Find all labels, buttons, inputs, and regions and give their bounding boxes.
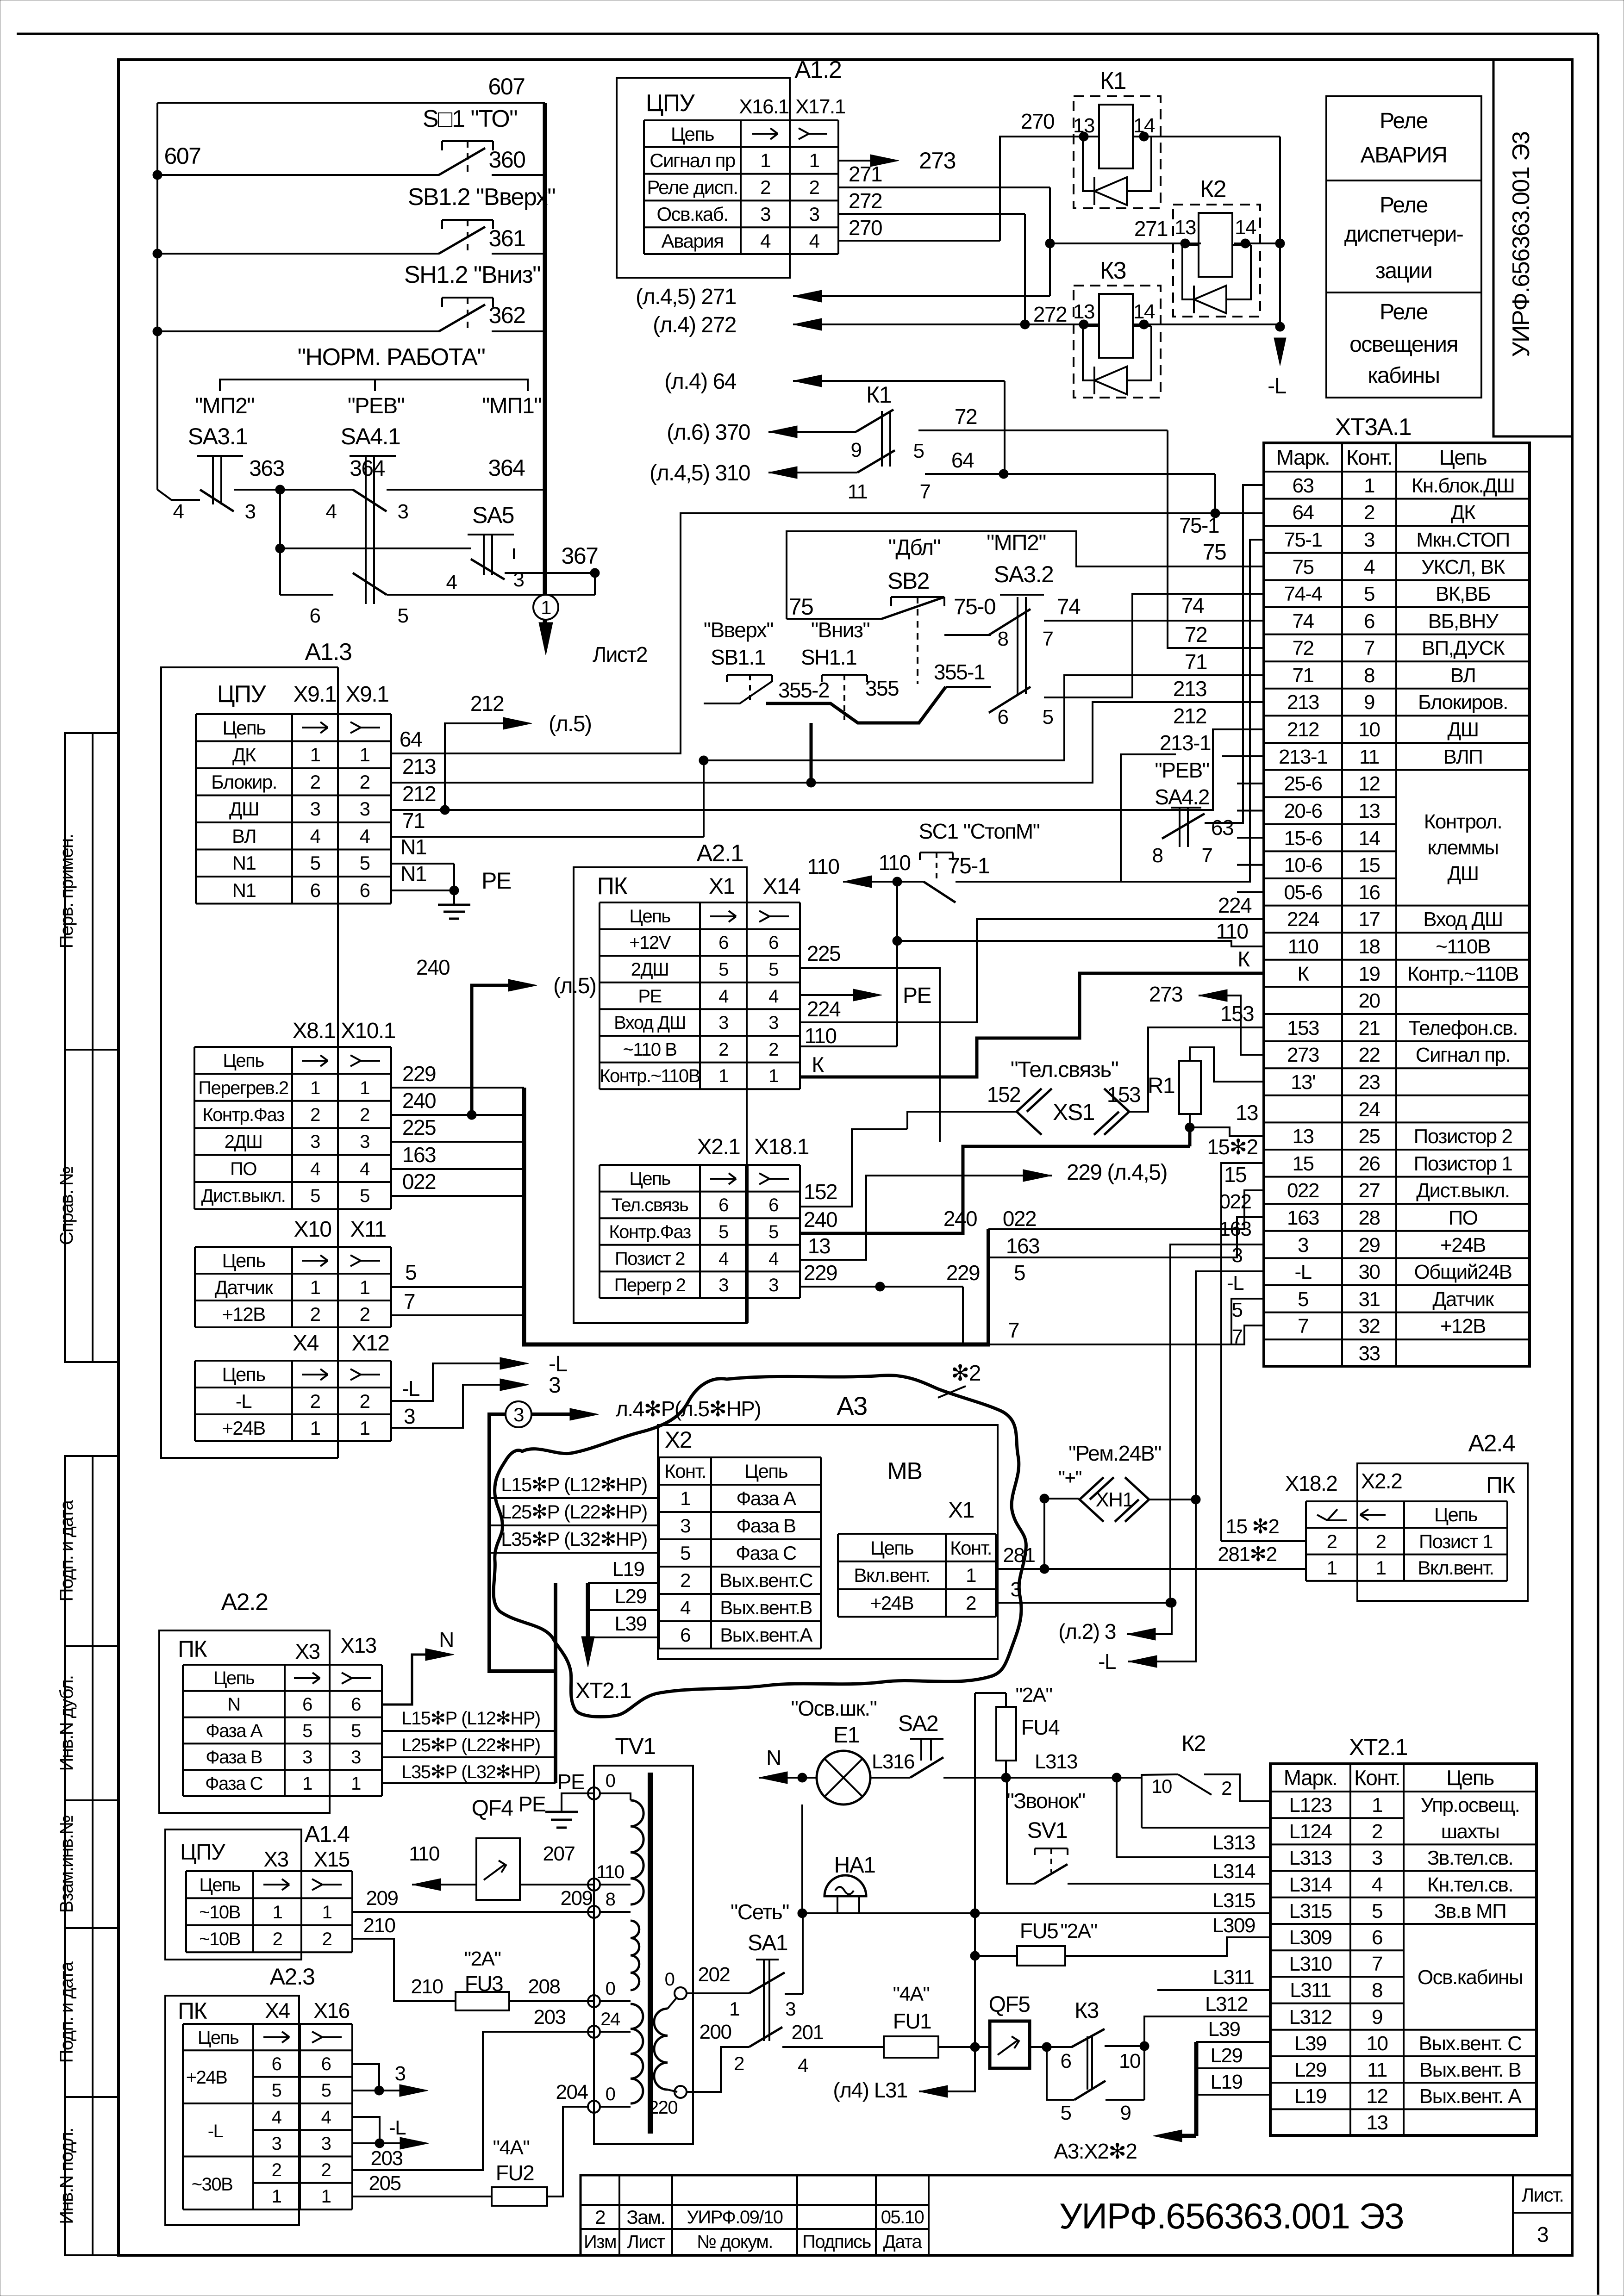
svg-text:А2.4: А2.4 xyxy=(1468,1430,1516,1457)
arrow 110 left xyxy=(843,881,897,883)
connector A2.4 block xyxy=(1357,1463,1528,1601)
svg-text:"МП2": "МП2" xyxy=(195,394,254,418)
connector table A2.1 X2.1/X18.1 xyxy=(600,1164,800,1166)
svg-text:0: 0 xyxy=(606,2084,615,2104)
svg-text:8: 8 xyxy=(1364,664,1374,687)
svg-text:3: 3 xyxy=(310,798,320,820)
svg-text:1: 1 xyxy=(310,1078,320,1098)
svg-text:6: 6 xyxy=(272,2054,281,2074)
svg-text:L29: L29 xyxy=(1211,2044,1243,2067)
svg-text:✻2: ✻2 xyxy=(951,1361,981,1386)
wire L39 row10 xyxy=(1196,2041,1270,2043)
svg-text:15: 15 xyxy=(1359,854,1380,877)
svg-text:4: 4 xyxy=(1364,556,1375,579)
svg-text:3: 3 xyxy=(785,1998,795,2020)
svg-text:L314: L314 xyxy=(1212,1860,1255,1883)
svg-text:3: 3 xyxy=(395,2062,406,2085)
svg-text:SA3.1: SA3.1 xyxy=(188,423,248,449)
svg-text:110: 110 xyxy=(1216,919,1248,943)
svg-text:5: 5 xyxy=(1043,706,1053,728)
svg-text:№ докум.: № докум. xyxy=(697,2232,773,2252)
bus to sheet2 (thick) xyxy=(543,103,547,595)
relay function table xyxy=(1326,96,1481,398)
svg-text:21: 21 xyxy=(1359,1017,1380,1039)
svg-text:1: 1 xyxy=(718,1066,728,1086)
svg-text:Фаза А: Фаза А xyxy=(736,1487,796,1509)
svg-text:XS1: XS1 xyxy=(1053,1099,1094,1125)
svg-text:110: 110 xyxy=(1288,935,1318,958)
svg-text:Вход ДШ: Вход ДШ xyxy=(1423,908,1502,931)
svg-text:2: 2 xyxy=(718,1039,728,1060)
svg-text:75: 75 xyxy=(789,594,813,620)
svg-text:7: 7 xyxy=(1372,1953,1382,1975)
svg-text:5: 5 xyxy=(913,440,924,462)
svg-text:Контр.Фаз: Контр.Фаз xyxy=(202,1105,284,1125)
svg-text:17: 17 xyxy=(1359,908,1380,931)
vertical feeder 607 xyxy=(156,103,158,490)
svg-text:(л.6) 370: (л.6) 370 xyxy=(667,420,750,445)
svg-text:PE: PE xyxy=(481,868,511,894)
svg-text:Цепь: Цепь xyxy=(1446,1766,1494,1790)
svg-text:281✻2: 281✻2 xyxy=(1218,1543,1276,1566)
svg-text:1: 1 xyxy=(302,1773,312,1794)
svg-text:+24В: +24В xyxy=(222,1417,265,1439)
svg-text:4: 4 xyxy=(760,230,771,252)
svg-text:1: 1 xyxy=(729,1998,739,2020)
svg-text:X18.2: X18.2 xyxy=(1285,1471,1337,1495)
svg-text:3: 3 xyxy=(768,1013,778,1033)
svg-text:Цепь: Цепь xyxy=(222,1363,265,1385)
svg-text:Упр.освещ.: Упр.освещ. xyxy=(1421,1794,1520,1817)
svg-text:212: 212 xyxy=(402,782,436,806)
wire L124 row2 xyxy=(1142,1827,1270,1829)
svg-text:Сигнал пр: Сигнал пр xyxy=(650,149,735,171)
arrow 229 (л.4,5) xyxy=(1023,1170,1052,1182)
svg-text:26: 26 xyxy=(1359,1152,1380,1175)
svg-text:Лист2: Лист2 xyxy=(593,642,647,666)
vertical rail from FU4 top xyxy=(974,1693,976,2091)
svg-text:30: 30 xyxy=(1359,1261,1380,1283)
svg-text:1: 1 xyxy=(360,1417,370,1439)
svg-text:2: 2 xyxy=(310,771,320,793)
svg-text:7: 7 xyxy=(920,480,931,503)
svg-text:2: 2 xyxy=(360,1303,370,1325)
svg-text:225: 225 xyxy=(807,941,840,965)
svg-text:5: 5 xyxy=(1372,1900,1382,1923)
SA1 contact 1-3 xyxy=(749,1972,785,1993)
wire (л.2) 3 arrow xyxy=(1155,1603,1172,1634)
module A1.4 outline xyxy=(165,1829,301,1960)
TV1 terminals left xyxy=(588,1787,600,1799)
svg-text:05.10: 05.10 xyxy=(881,2207,924,2228)
wire 270 riser to K1 xyxy=(1000,137,1099,241)
svg-text:022: 022 xyxy=(402,1170,436,1194)
wire L313 to K2 xyxy=(1006,1777,1142,1779)
svg-text:Дата: Дата xyxy=(883,2232,923,2252)
svg-text:224: 224 xyxy=(807,997,841,1021)
svg-text:(л.2) 3: (л.2) 3 xyxy=(1058,1619,1116,1643)
svg-text:5: 5 xyxy=(302,1721,312,1741)
svg-text:-L: -L xyxy=(402,1376,420,1400)
svg-text:"Осв.шк.": "Осв.шк." xyxy=(791,1696,877,1720)
svg-text:L35✻Р (L32✻НР): L35✻Р (L32✻НР) xyxy=(501,1528,647,1550)
arrow А3:Х2*2 xyxy=(1181,2134,1196,2138)
svg-text:Датчик: Датчик xyxy=(1432,1288,1494,1311)
svg-text:"МП2": "МП2" xyxy=(987,531,1046,555)
svg-text:13': 13' xyxy=(1291,1071,1315,1094)
wire N out xyxy=(382,1655,426,1705)
svg-text:3: 3 xyxy=(360,798,370,820)
svg-text:5: 5 xyxy=(351,1721,361,1741)
svg-text:364: 364 xyxy=(488,455,525,481)
svg-text:4: 4 xyxy=(768,986,779,1007)
svg-text:75-1: 75-1 xyxy=(948,854,989,878)
thick divider cable on A2.1 xyxy=(745,1165,749,1323)
connector table X10/X11 xyxy=(195,1246,391,1248)
svg-text:2: 2 xyxy=(760,176,770,198)
svg-text:X11: X11 xyxy=(350,1217,386,1242)
svg-text:А1.2: А1.2 xyxy=(795,56,842,83)
svg-text:SB1.2 "Вверх": SB1.2 "Вверх" xyxy=(408,184,556,211)
svg-text:3: 3 xyxy=(513,1404,524,1425)
arrow (л.4) 64 xyxy=(793,380,1005,382)
svg-text:"Тел.связь": "Тел.связь" xyxy=(1011,1058,1118,1082)
svg-text:L313: L313 xyxy=(1212,1831,1255,1854)
wire 110 from X1 row2 xyxy=(800,1045,897,1047)
svg-text:229: 229 xyxy=(804,1261,837,1285)
svg-text:-L: -L xyxy=(236,1390,251,1412)
svg-text:L314: L314 xyxy=(1289,1873,1332,1896)
svg-text:3: 3 xyxy=(718,1275,728,1295)
svg-text:207: 207 xyxy=(543,1842,575,1865)
svg-text:FU5: FU5 xyxy=(1020,1919,1058,1943)
svg-text:4: 4 xyxy=(360,1159,370,1179)
svg-text:К3: К3 xyxy=(1074,1998,1099,2023)
svg-text:15✻2: 15✻2 xyxy=(1207,1135,1257,1159)
svg-text:16: 16 xyxy=(1359,881,1380,904)
svg-text:Конт.: Конт. xyxy=(664,1460,706,1482)
svg-text:74: 74 xyxy=(1293,610,1314,633)
svg-text:N1: N1 xyxy=(400,862,426,886)
svg-text:Зам.: Зам. xyxy=(626,2206,665,2228)
svg-text:ДК: ДК xyxy=(1451,501,1476,524)
svg-text:5: 5 xyxy=(360,1186,369,1206)
svg-text:Блокиров.: Блокиров. xyxy=(1418,691,1508,714)
svg-text:14: 14 xyxy=(1235,216,1256,239)
svg-text:2: 2 xyxy=(1372,1820,1382,1843)
svg-text:270: 270 xyxy=(1021,109,1054,133)
phase trunk thick xyxy=(554,1583,557,1783)
svg-text:110: 110 xyxy=(879,851,911,875)
svg-text:3: 3 xyxy=(1298,1234,1308,1257)
svg-text:Фаза В: Фаза В xyxy=(206,1747,262,1767)
svg-text:Дист.выкл.: Дист.выкл. xyxy=(201,1186,286,1206)
svg-text:РЕ: РЕ xyxy=(557,1770,584,1794)
wire 607 top bus xyxy=(157,102,545,104)
svg-text:5: 5 xyxy=(768,959,778,980)
svg-text:ВБ,ВНУ: ВБ,ВНУ xyxy=(1428,610,1499,633)
stub 74-4 row5 xyxy=(1222,593,1264,595)
svg-text:Контр.Фаз: Контр.Фаз xyxy=(609,1222,691,1242)
svg-text:4: 4 xyxy=(326,500,337,523)
svg-text:75-1: 75-1 xyxy=(1284,529,1322,551)
svg-text:1: 1 xyxy=(1376,1557,1386,1579)
svg-text:5: 5 xyxy=(360,852,370,874)
svg-text:363: 363 xyxy=(249,456,284,481)
svg-text:220: 220 xyxy=(649,2097,677,2118)
svg-text:6: 6 xyxy=(310,604,320,627)
svg-text:Лист: Лист xyxy=(627,2232,665,2252)
svg-text:Вых.вент. В: Вых.вент. В xyxy=(1419,2059,1521,2081)
svg-text:"2А": "2А" xyxy=(1060,1920,1097,1942)
svg-text:31: 31 xyxy=(1359,1288,1380,1311)
svg-text:74-4: 74-4 xyxy=(1284,583,1322,605)
relay K1 diode xyxy=(1094,177,1127,205)
svg-text:шахты: шахты xyxy=(1441,1820,1499,1843)
MB device box xyxy=(658,1425,998,1659)
svg-text:Конт.: Конт. xyxy=(950,1537,992,1559)
svg-text:(л.4) 64: (л.4) 64 xyxy=(664,369,737,394)
thick trunk L39/L29/L19 xyxy=(1194,2042,1199,2136)
svg-text:Позистор 1: Позистор 1 xyxy=(1414,1152,1512,1175)
svg-text:Осв.каб.: Осв.каб. xyxy=(656,203,728,225)
svg-text:2: 2 xyxy=(1327,1531,1337,1552)
svg-text:"Вниз": "Вниз" xyxy=(811,618,870,642)
wire 13 to XT3A row25 xyxy=(1190,1127,1264,1136)
svg-text:213-1: 213-1 xyxy=(1279,746,1327,768)
svg-text:3: 3 xyxy=(513,568,524,591)
svg-text:Подп. и дата: Подп. и дата xyxy=(56,1500,77,1601)
TV1 terminals right xyxy=(675,1987,687,1999)
svg-text:23: 23 xyxy=(1359,1071,1380,1094)
svg-text:355: 355 xyxy=(865,676,899,700)
svg-text:25: 25 xyxy=(1359,1125,1380,1148)
svg-text:2: 2 xyxy=(360,1105,369,1125)
svg-text:L15✻Р (L12✻НР): L15✻Р (L12✻НР) xyxy=(401,1708,540,1729)
svg-text:212: 212 xyxy=(1173,704,1206,728)
svg-text:13: 13 xyxy=(1236,1101,1258,1125)
svg-text:ХТ2.1: ХТ2.1 xyxy=(1349,1734,1407,1760)
svg-text:ПО: ПО xyxy=(1449,1207,1478,1229)
svg-text:L19: L19 xyxy=(612,1558,644,1580)
TV1 primary windings xyxy=(631,1800,643,1904)
svg-text:25-6: 25-6 xyxy=(1284,772,1322,795)
svg-text:Вых.вент. А: Вых.вент. А xyxy=(1419,2085,1522,2108)
svg-text:3: 3 xyxy=(718,1013,728,1033)
svg-text:5: 5 xyxy=(321,2080,331,2101)
svg-text:L39: L39 xyxy=(1208,2018,1240,2041)
svg-text:8: 8 xyxy=(1152,844,1163,867)
svg-text:7: 7 xyxy=(1298,1315,1308,1338)
svg-text:~10В: ~10В xyxy=(199,1902,240,1923)
svg-text:5: 5 xyxy=(768,1222,778,1242)
svg-text:212: 212 xyxy=(470,691,504,716)
svg-text:210: 210 xyxy=(363,1914,395,1937)
svg-text:13: 13 xyxy=(1359,800,1380,822)
svg-text:-L: -L xyxy=(1268,374,1286,398)
svg-text:1: 1 xyxy=(321,2186,331,2207)
svg-text:ВЛ: ВЛ xyxy=(232,825,256,847)
svg-text:1: 1 xyxy=(1372,1794,1382,1817)
svg-text:14: 14 xyxy=(1359,827,1380,850)
svg-text:203: 203 xyxy=(371,2147,403,2170)
svg-text:SC1 "СтопМ": SC1 "СтопМ" xyxy=(918,819,1039,843)
wire L29 row11 xyxy=(1196,2067,1270,2069)
svg-text:А2.3: А2.3 xyxy=(270,1964,315,1990)
svg-text:5: 5 xyxy=(1232,1299,1243,1321)
svg-text:0: 0 xyxy=(606,1979,615,1999)
svg-text:Х16: Х16 xyxy=(313,1998,349,2022)
svg-text:3: 3 xyxy=(1232,1244,1243,1267)
svg-text:10: 10 xyxy=(1359,718,1380,741)
svg-text:1: 1 xyxy=(351,1773,361,1794)
sheet number box xyxy=(1512,2175,1514,2255)
cable trunk from X8.1 wires xyxy=(522,1088,526,1346)
svg-text:Фаза С: Фаза С xyxy=(205,1773,262,1794)
relay K2 dashed box xyxy=(1173,205,1260,317)
wire 273 out xyxy=(838,160,871,162)
module A2.2 outline xyxy=(159,1630,330,1813)
svg-text:А3: А3 xyxy=(837,1391,867,1420)
svg-text:К2: К2 xyxy=(1181,1731,1206,1756)
wire 360 xyxy=(153,170,162,180)
svg-text:10-6: 10-6 xyxy=(1284,854,1322,877)
svg-text:75-0: 75-0 xyxy=(954,595,995,619)
svg-text:ПК: ПК xyxy=(1486,1472,1515,1498)
svg-text:SV1: SV1 xyxy=(1027,1818,1067,1843)
svg-text:"НОРМ. РАБОТА": "НОРМ. РАБОТА" xyxy=(298,344,485,371)
connector table X4/X12 xyxy=(195,1360,391,1362)
svg-text:4: 4 xyxy=(310,1159,320,1179)
svg-text:К: К xyxy=(1297,963,1309,985)
svg-text:зации: зации xyxy=(1375,259,1432,283)
wire 7 to XT3A row32 xyxy=(990,1325,1264,1344)
svg-text:213-1: 213-1 xyxy=(1160,731,1211,755)
svg-text:Инв.N подл.: Инв.N подл. xyxy=(56,2128,77,2224)
svg-text:SA4.1: SA4.1 xyxy=(341,423,400,449)
bracket under label xyxy=(220,380,528,391)
svg-text:5: 5 xyxy=(1364,583,1374,605)
svg-text:(л.4) 272: (л.4) 272 xyxy=(653,313,736,337)
svg-text:"РЕВ": "РЕВ" xyxy=(1155,758,1209,782)
svg-text:6: 6 xyxy=(680,1624,690,1646)
svg-text:15: 15 xyxy=(1293,1152,1314,1175)
svg-text:X12: X12 xyxy=(352,1331,389,1356)
svg-text:3: 3 xyxy=(809,203,819,225)
svg-text:72: 72 xyxy=(1185,622,1207,647)
svg-text:L39: L39 xyxy=(615,1612,647,1635)
svg-text:Фаза В: Фаза В xyxy=(736,1515,795,1537)
contact K1.9-5 wire 370 xyxy=(768,431,856,433)
svg-text:~110 В: ~110 В xyxy=(623,1039,677,1060)
wire 363 / 364 xyxy=(157,490,200,500)
svg-text:L25✻Р (L22✻НР): L25✻Р (L22✻НР) xyxy=(501,1501,647,1523)
svg-text:240: 240 xyxy=(402,1089,436,1113)
TV1 terminal stubs xyxy=(600,1884,631,1885)
svg-text:SA2: SA2 xyxy=(898,1711,938,1736)
device A3 cloud outline xyxy=(493,1375,1026,1717)
svg-text:Телефон.св.: Телефон.св. xyxy=(1408,1017,1518,1039)
svg-text:+24В: +24В xyxy=(870,1592,913,1614)
svg-text:Цепь: Цепь xyxy=(744,1460,788,1482)
wire -L rail down to XH1 xyxy=(1196,1271,1264,1500)
svg-text:НА1: НА1 xyxy=(834,1853,875,1878)
SA1 contact 2-4 xyxy=(749,2027,782,2047)
svg-text:3: 3 xyxy=(310,1132,320,1152)
svg-text:Позистор 2: Позистор 2 xyxy=(1414,1125,1512,1148)
svg-text:N: N xyxy=(227,1694,240,1715)
svg-text:L15✻Р (L12✻НР): L15✻Р (L12✻НР) xyxy=(501,1474,647,1495)
svg-text:Цепь: Цепь xyxy=(198,2028,239,2048)
svg-text:29: 29 xyxy=(1359,1234,1380,1257)
svg-text:L312: L312 xyxy=(1205,1993,1248,2016)
svg-text:Вход ДШ: Вход ДШ xyxy=(614,1013,686,1033)
arrow (л.4) 272 xyxy=(1024,214,1026,324)
svg-text:71: 71 xyxy=(1293,664,1314,687)
svg-text:X17.1: X17.1 xyxy=(795,95,845,118)
svg-text:Реле: Реле xyxy=(1380,193,1428,218)
svg-text:L309: L309 xyxy=(1289,1926,1332,1949)
svg-text:Марк.: Марк. xyxy=(1276,445,1330,469)
svg-text:10: 10 xyxy=(1151,1775,1172,1797)
svg-text:361: 361 xyxy=(489,225,525,251)
svg-text:Цепь: Цепь xyxy=(1434,1504,1478,1525)
svg-text:210: 210 xyxy=(411,1975,443,1998)
svg-text:Перв. примен.: Перв. примен. xyxy=(56,834,77,948)
svg-text:72: 72 xyxy=(955,404,977,429)
svg-text:5: 5 xyxy=(310,1186,320,1206)
svg-text:3: 3 xyxy=(1372,1847,1382,1869)
svg-text:ДШ: ДШ xyxy=(1447,862,1478,885)
svg-text:Цепь: Цепь xyxy=(222,717,266,739)
svg-text:20: 20 xyxy=(1359,989,1380,1012)
svg-text:4: 4 xyxy=(446,571,457,594)
svg-text:N1: N1 xyxy=(400,835,426,859)
svg-text:"Сеть": "Сеть" xyxy=(731,1900,789,1924)
wire to XH1 plus xyxy=(1044,1499,1079,1569)
svg-text:213: 213 xyxy=(1287,691,1319,714)
svg-text:-L: -L xyxy=(208,2121,223,2141)
svg-text:74: 74 xyxy=(1057,595,1081,619)
svg-text:15 ✻2: 15 ✻2 xyxy=(1225,1515,1279,1538)
svg-text:-L: -L xyxy=(1227,1272,1244,1294)
svg-text:X14: X14 xyxy=(763,874,801,899)
svg-text:7: 7 xyxy=(1043,628,1053,650)
arrow (л.4,5) 271 xyxy=(1049,187,1051,296)
svg-text:-L: -L xyxy=(1098,1649,1116,1674)
wire 272 out xyxy=(838,213,1025,215)
svg-text:364: 364 xyxy=(350,456,385,481)
svg-text:8: 8 xyxy=(1372,1979,1382,2002)
svg-text:ДШ: ДШ xyxy=(1447,718,1478,741)
svg-text:9: 9 xyxy=(1120,2102,1131,2124)
wire 74 to XT3A row6 xyxy=(1044,620,1264,622)
svg-text:74: 74 xyxy=(1181,593,1204,617)
svg-text:64: 64 xyxy=(400,727,422,751)
svg-text:1: 1 xyxy=(273,1902,282,1923)
svg-text:28: 28 xyxy=(1359,1207,1380,1229)
wire Сеть to L315 row5 xyxy=(798,1909,807,1918)
svg-text:R1: R1 xyxy=(1148,1074,1174,1098)
svg-text:+24В: +24В xyxy=(1440,1234,1486,1257)
svg-text:6: 6 xyxy=(1061,2050,1071,2072)
svg-text:205: 205 xyxy=(369,2172,401,2195)
thick drop from 355 chain xyxy=(810,723,813,783)
wire SV1 to L314 row4 xyxy=(1006,1777,1007,1779)
trunk from node 3 down to XT2.1 xyxy=(489,1414,556,1671)
svg-text:4: 4 xyxy=(680,1597,691,1618)
svg-text:ХТ3А.1: ХТ3А.1 xyxy=(1335,414,1411,441)
